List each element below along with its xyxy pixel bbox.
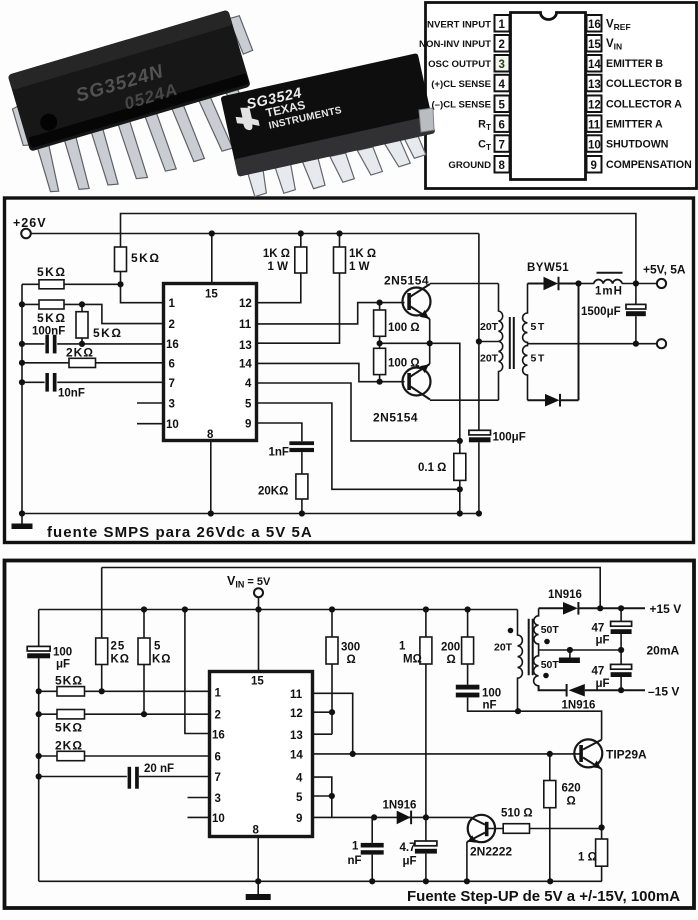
svg-text:25: 25 [111,641,126,653]
svg-text:11: 11 [290,689,303,701]
junction left rail pin16 [19,341,25,347]
pin 16 box [587,15,602,32]
IC photo chip 2 stray pin over pinout box [419,108,434,132]
junction ground rail 100uF [476,510,482,516]
wire pin 11 to Q1 base [257,303,405,324]
svg-text:20 nF: 20 nF [144,763,174,775]
resistor 100 ohm R2 [379,343,381,381]
svg-text:nF: nF [483,700,497,712]
pin 9 box [587,156,602,173]
junction 4.7uF 1M node [423,814,429,820]
svg-text:12: 12 [239,298,252,310]
svg-text:COLLECTOR B: COLLECTOR B [606,78,683,90]
svg-text:50T: 50T [541,624,560,636]
pin 6 box [495,115,510,131]
svg-text:1 W: 1 W [349,261,370,273]
svg-text:(–)CL SENSE: (–)CL SENSE [431,100,491,111]
wire 0V return line [528,343,657,345]
wire pin 4 net [257,383,460,441]
junction rail pin16 riser [182,606,188,612]
capacitor 47uF top [620,608,622,650]
svg-text:8: 8 [499,160,506,172]
pin 4 box [495,75,510,92]
svg-text:4: 4 [245,378,252,390]
wire VIN riser to pin 15 [258,597,260,670]
svg-text:EMITTER A: EMITTER A [606,119,663,131]
svg-text:100μF: 100μF [493,432,526,444]
svg-text:510 Ω: 510 Ω [501,808,533,820]
svg-text:VIN = 5V: VIN = 5V [227,574,271,590]
terminal output 0V [657,339,666,348]
svg-text:3: 3 [169,399,175,411]
svg-text:COLLECTOR A: COLLECTOR A [606,99,682,111]
wire bottom ground rail 2 [39,880,602,882]
svg-text:1: 1 [499,19,506,31]
svg-text:47: 47 [592,623,605,635]
resistor 510 ohm [489,828,602,830]
transformer T2 primary winding [518,610,523,712]
svg-text:Ω: Ω [347,654,356,666]
transformer T1 primary winding [499,284,503,401]
junction rail 300 ohm [329,606,335,612]
svg-text:5KΩ: 5KΩ [55,674,83,688]
svg-text:4: 4 [296,773,303,785]
svg-text:9: 9 [245,419,251,431]
svg-text:2: 2 [499,39,505,51]
svg-text:10nF: 10nF [58,388,85,400]
svg-text:2KΩ: 2KΩ [55,739,83,753]
svg-text:TIP29A: TIP29A [606,748,647,762]
junction ground rail 0.1 ohm [457,510,463,516]
svg-text:(+)CL SENSE: (+)CL SENSE [431,79,491,90]
inductor 1mH [579,283,594,285]
diode 1N916 bottom negative rail [539,684,645,697]
pin 10 box [587,135,602,152]
svg-text:8: 8 [207,429,214,441]
svg-text:Ω: Ω [567,796,576,808]
svg-text:1500μF: 1500μF [581,306,621,318]
pin 14 box [587,55,602,72]
svg-text:1K Ω: 1K Ω [263,248,290,260]
pin 15 box [587,35,602,52]
svg-text:1 Ω: 1 Ω [578,852,597,864]
resistor 5K row2 [22,304,163,323]
junction pin12 300 ohm [329,709,335,715]
svg-text:+15 V: +15 V [650,602,682,616]
junction 5K vert pin2 node [141,711,147,717]
junction left col 5K row2 [36,711,42,717]
svg-text:7: 7 [499,139,505,151]
svg-text:2N5154: 2N5154 [373,411,418,425]
svg-text:10: 10 [212,813,225,825]
junction primary center tap [476,338,482,344]
junction primary bottom [515,708,521,714]
capacitor 1nF bottom [371,817,373,881]
wire bottom ground rail [22,513,479,515]
junction ground rail 20K [299,510,305,516]
svg-text:100 Ω: 100 Ω [388,322,420,334]
transistor Q2 2N5154 [403,368,431,396]
junction 1K B on +26V rail [336,230,342,236]
IC photo chip 2 SG3524 Texas Instruments DIP package [220,53,441,204]
svg-text:1: 1 [352,841,359,853]
wire center tap drop from +26V [479,234,499,431]
svg-text:12: 12 [290,708,303,720]
junction ground rail pin8 [208,510,214,516]
junction pin11 pin14 [350,751,356,757]
transformer T1 secondary winding [523,284,528,401]
ground symbol bottom center [257,881,259,894]
ground symbol left [21,514,23,525]
wire pin 9 net [257,423,302,441]
svg-text:KΩ: KΩ [111,654,131,666]
junction ground rail2 4.7uF [423,878,429,884]
wire Q1 collector to primary top [430,283,499,285]
wire pin 14 to Q2 base [257,363,405,381]
junction 620 TIP base [547,751,553,757]
svg-text:2: 2 [215,710,221,722]
junction 47uF midpoint [618,647,624,653]
svg-text:OSC OUTPUT: OSC OUTPUT [428,59,491,70]
resistor 1M [425,610,427,818]
junction feedback +15V node [597,605,603,611]
junction left rail 10nF [19,379,25,385]
wire pin 10 stub bottom [188,816,210,818]
junction Q1 base R1 top [377,300,383,306]
svg-text:4.7: 4.7 [400,842,416,854]
svg-text:11: 11 [588,119,601,131]
svg-text:+5V, 5A: +5V, 5A [643,263,686,277]
junction left col 2K [36,753,42,759]
svg-text:10: 10 [588,139,601,151]
svg-text:620: 620 [562,783,581,795]
junction left rail row2 [19,301,25,307]
transistor Q1 2N5154 [403,288,431,316]
capacitor 100uF [469,430,491,435]
svg-text:EMITTER B: EMITTER B [606,58,663,70]
junction emitters common [427,340,433,346]
IC photo chip 1 SG3524N DIP package [3,6,279,208]
wire pin 11 riser [314,693,353,754]
resistor 5K row1 [22,283,121,285]
transformer T2 secondary phase dot bottom [543,673,549,679]
svg-text:–15 V: –15 V [648,685,679,699]
svg-text:5: 5 [499,100,506,112]
junction rail 1M [423,606,429,612]
svg-text:COMPENSATION: COMPENSATION [606,159,692,171]
pin 7 box [495,135,510,152]
junction TIP emitter 1 ohm [599,824,605,830]
resistor 20K [296,474,308,499]
svg-text:1mH: 1mH [595,286,623,298]
svg-text:15: 15 [251,676,264,688]
svg-text:5T: 5T [531,321,546,333]
svg-text:KΩ: KΩ [152,654,172,666]
op-amp U2 SG3524 IC box [164,284,257,441]
capacitor 10nF [45,373,56,392]
diode 1N916 top [539,602,645,615]
svg-text:20T: 20T [494,642,513,654]
junction ground rail left [19,510,25,516]
junction 1nF tap [371,814,377,820]
svg-text:1N916: 1N916 [383,800,417,812]
svg-text:5T: 5T [531,353,546,365]
svg-text:0.1 Ω: 0.1 Ω [418,462,446,474]
svg-text:1: 1 [169,298,176,310]
wire pin 15 riser [211,234,213,284]
svg-text:100 Ω: 100 Ω [388,358,420,370]
terminal +26V input [21,229,31,239]
svg-text:50T: 50T [541,659,560,671]
junction ground rail2 2N2222 [464,878,470,884]
resistor 5K row2 bottom [39,713,209,715]
wire TIP emitter drop [601,769,603,828]
junction 25K pin1 node [99,688,105,694]
svg-text:13: 13 [588,79,601,91]
pin 2 box [495,35,510,52]
svg-text:11: 11 [239,319,252,331]
svg-text:5KΩ: 5KΩ [37,311,66,325]
pin 3 box [495,55,510,72]
svg-text:300: 300 [341,642,360,654]
resistor 100 ohm R1 [379,303,381,344]
svg-text:NON-INV INPUT: NON-INV INPUT [419,39,491,50]
wire pin 9 compensation net [314,816,471,818]
svg-text:2N2222: 2N2222 [470,845,512,859]
svg-text:16: 16 [588,19,601,31]
svg-text:1: 1 [215,688,222,700]
wire pin 5 net [257,403,460,489]
junction left rail 2K [19,360,25,366]
svg-text:1: 1 [399,641,406,653]
svg-text:14: 14 [588,59,601,71]
svg-text:20T: 20T [480,321,499,333]
svg-text:5KΩ: 5KΩ [55,721,83,735]
pin 1 box [495,15,510,32]
capacitor 47uF bottom [620,650,622,690]
terminal VIN 5V [254,588,263,597]
svg-text:2KΩ: 2KΩ [66,346,94,360]
svg-text:μF: μF [56,659,70,671]
capacitor 100uF input [27,646,50,651]
ground symbol center tap [569,650,571,658]
svg-text:13: 13 [239,340,252,352]
junction 5K mid top [79,301,85,307]
resistor 25K [96,638,108,665]
junction left col 5K row1 [36,688,42,694]
svg-text:5KΩ: 5KΩ [37,265,66,279]
junction 1K A on +26V rail [298,230,304,236]
svg-text:8: 8 [253,825,260,837]
pin 12 box [587,96,602,113]
wire left column with 100uF [38,610,40,882]
junction left col 20nF [36,773,42,779]
transistor Q3 TIP29A [574,739,602,767]
wire snubber to TIP collector [468,697,602,739]
wire pins 12 13 tie [314,712,332,734]
resistor 1K 1W B [257,234,340,344]
capacitor 1nF [289,441,314,452]
svg-text:16: 16 [212,730,225,742]
svg-text:+26V: +26V [13,216,47,230]
resistor 1K 1W A [257,234,301,303]
transformer T2 core [529,619,533,676]
transistor Q4 2N2222 [468,815,495,842]
wire rail to pin 16 [185,610,209,734]
svg-text:GROUND: GROUND [448,160,491,171]
resistor 0.1 ohm [459,441,461,514]
svg-text:100: 100 [482,688,501,700]
svg-text:6: 6 [215,752,221,764]
svg-text:100nF: 100nF [32,326,65,338]
svg-text:1 W: 1 W [268,261,289,273]
junction 0.1 ohm bottom pin5 [457,486,463,492]
wire feedback rail from 5K to +5V node [121,214,636,284]
pin 8 box [495,156,510,173]
svg-text:13: 13 [290,730,303,742]
junction ground rail2 620 [547,878,553,884]
wire pin 7 with 20nF [39,776,209,778]
resistor 1 ohm [601,828,603,882]
resistor 5K vertical middle [81,304,83,344]
capacitor 4.7uF [425,817,427,881]
svg-text:20T: 20T [480,353,499,365]
wire pin 3 stub bottom [188,797,210,799]
wire pin 8 drop [210,441,212,514]
transformer T1 core [510,317,514,369]
svg-text:BYW51: BYW51 [527,262,569,274]
svg-text:μF: μF [403,856,417,868]
junction diode cathodes [575,280,581,286]
wire pin 14 to TIP29A base [314,753,581,755]
junction 0.1 ohm top [457,438,463,444]
junction feedback node pin1 [117,281,123,287]
wire pin 7 net [22,381,163,383]
junction +5V node [633,280,639,286]
capacitor 20nF [128,767,139,789]
transformer T2 secondary phase dot top [544,639,550,645]
svg-text:Ω: Ω [447,654,456,666]
wire emitter common node [380,319,460,441]
svg-text:6: 6 [169,359,175,371]
svg-text:15: 15 [588,39,601,51]
resistor 2K row [22,362,163,364]
resistor 2K row bottom [39,755,209,757]
wire secondary center tap [539,649,622,651]
wire 2N2222 emitter drop [466,842,468,881]
svg-text:5KΩ: 5KΩ [93,326,122,340]
transformer T2 secondary winding [534,608,539,690]
svg-text:MΩ: MΩ [403,654,422,666]
svg-text:5: 5 [245,399,252,411]
transformer T2 primary phase dot [508,628,514,634]
junction VIN on +5V rail [255,606,261,612]
resistor 5K feedback vertical [115,247,127,272]
svg-text:2: 2 [169,319,175,331]
svg-text:47: 47 [592,666,605,678]
svg-text:μF: μF [596,635,610,647]
svg-text:4: 4 [499,79,506,91]
svg-text:20mA: 20mA [647,644,680,658]
junction 5K mid bottom [79,341,85,347]
pin 5 box [495,96,510,113]
junction 47uF bottom -15V [618,687,624,693]
svg-text:14: 14 [239,359,252,371]
junction rail 5K vertical [141,606,147,612]
svg-text:2N5154: 2N5154 [384,274,429,288]
svg-text:1nF: 1nF [269,447,289,459]
pin 11 box [587,115,602,131]
svg-text:16: 16 [166,339,179,351]
wire Q2 collector to primary bottom [430,399,499,401]
junction ground rail2 1nF [369,878,375,884]
op-amp U3 SG3524 IC box bottom [210,672,313,837]
resistor 300 ohm [331,610,333,713]
svg-text:1N916: 1N916 [562,700,596,712]
svg-text:100: 100 [53,647,72,659]
junction 0V node [633,341,639,347]
resistor 5K row1 bottom [39,690,209,692]
junction ground rail2 pin8 [255,878,261,884]
svg-text:12: 12 [588,100,601,112]
svg-text:15: 15 [205,289,218,301]
diode BYW51 bottom [528,284,579,407]
junction pin15 on +26V rail [209,230,215,236]
resistor 5K vertical [143,610,145,715]
svg-text:5: 5 [154,641,161,653]
svg-text:10: 10 [166,419,179,431]
capacitor 100nF [45,335,56,354]
svg-text:5KΩ: 5KΩ [131,251,160,265]
svg-text:200: 200 [441,642,460,654]
diode 1N916 compensation [397,811,411,825]
wire pin 10 stub [137,423,163,425]
wire left ground rail [21,284,23,513]
wire +5V rail [39,609,518,611]
svg-text:INVERT INPUT: INVERT INPUT [424,19,491,30]
svg-text:5: 5 [296,792,303,804]
junction 47uF top +15V [618,605,624,611]
resistor 620 ohm [549,754,551,881]
wire 5K bottom to pin 1 [121,272,164,303]
pin 13 box [587,75,602,92]
wire pin 8 to ground rail [257,838,259,881]
svg-text:6: 6 [499,119,505,131]
svg-text:fuente SMPS para 26Vdc a 5V 5A: fuente SMPS para 26Vdc a 5V 5A [47,524,313,541]
svg-text:7: 7 [215,772,221,784]
terminal output +5V [657,279,666,288]
wire pin 16 net [22,343,163,345]
svg-text:3: 3 [215,793,221,805]
svg-text:9: 9 [296,813,302,825]
diode BYW51 top [528,277,579,290]
wire pins 4 5 tie [314,777,332,817]
capacitor 100nF snubber [456,685,480,698]
junction pins 4 5 [329,793,335,799]
svg-text:20KΩ: 20KΩ [258,486,288,498]
svg-text:nF: nF [348,855,362,867]
junction center tap ground [567,647,573,653]
pinout diagram IC body U1 [511,13,586,180]
junction Q2 base R2 bottom [377,379,383,385]
svg-text:7: 7 [169,378,175,390]
svg-text:1N916: 1N916 [548,589,582,601]
wire +26V rail [31,233,479,235]
svg-text:Fuente Step-UP de 5V a +/-15V: Fuente Step-UP de 5V a +/-15V, 100mA [407,888,680,905]
wire pin 3 stub [137,402,163,404]
svg-text:SHUTDOWN: SHUTDOWN [606,139,668,151]
junction rail 200 ohm [465,606,471,612]
